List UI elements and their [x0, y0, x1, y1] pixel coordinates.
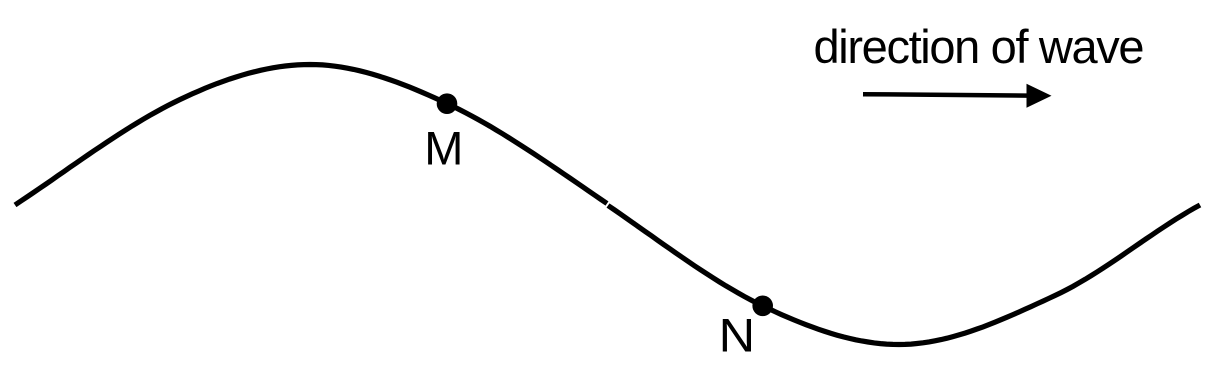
direction arrow: [863, 84, 1052, 108]
node N: [752, 296, 773, 317]
wire: [608, 205, 1200, 345]
wave: [15, 65, 1200, 345]
svg-text:N: N: [719, 309, 756, 362]
svg-text:M: M: [424, 122, 463, 175]
node M: [437, 93, 458, 114]
wire: [15, 65, 607, 206]
svg-text:direction of wave: direction of wave: [814, 20, 1145, 73]
